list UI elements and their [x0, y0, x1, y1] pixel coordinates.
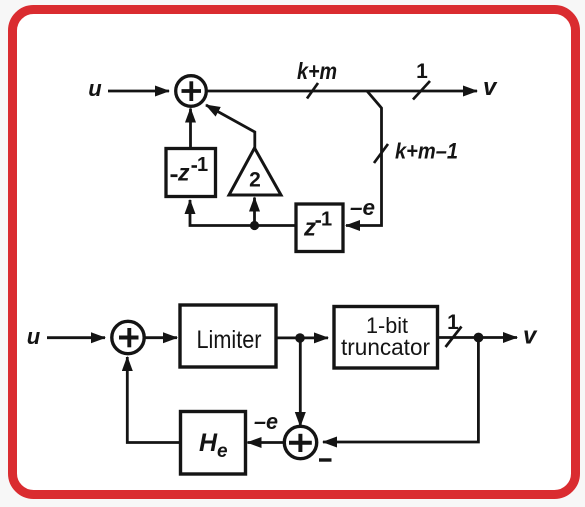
svg-text:k+m–1: k+m–1: [395, 139, 458, 164]
svg-text:e: e: [217, 441, 228, 462]
svg-text:u: u: [88, 76, 102, 101]
svg-text:v: v: [483, 74, 498, 101]
svg-text:u: u: [27, 324, 41, 349]
svg-text:–e: –e: [254, 409, 278, 434]
svg-text:–e: –e: [350, 195, 375, 220]
svg-text:1: 1: [197, 154, 208, 176]
svg-text:truncator: truncator: [341, 334, 430, 360]
svg-text:z: z: [177, 160, 190, 186]
svg-text:k+m: k+m: [297, 58, 337, 84]
svg-text:1: 1: [321, 209, 332, 231]
svg-text:H: H: [199, 429, 218, 457]
svg-text:2: 2: [249, 169, 261, 192]
svg-text:z: z: [303, 215, 316, 242]
svg-text:Limiter: Limiter: [197, 326, 262, 354]
svg-text:v: v: [523, 323, 538, 350]
svg-text:1: 1: [447, 311, 459, 334]
svg-text:1: 1: [416, 60, 428, 83]
